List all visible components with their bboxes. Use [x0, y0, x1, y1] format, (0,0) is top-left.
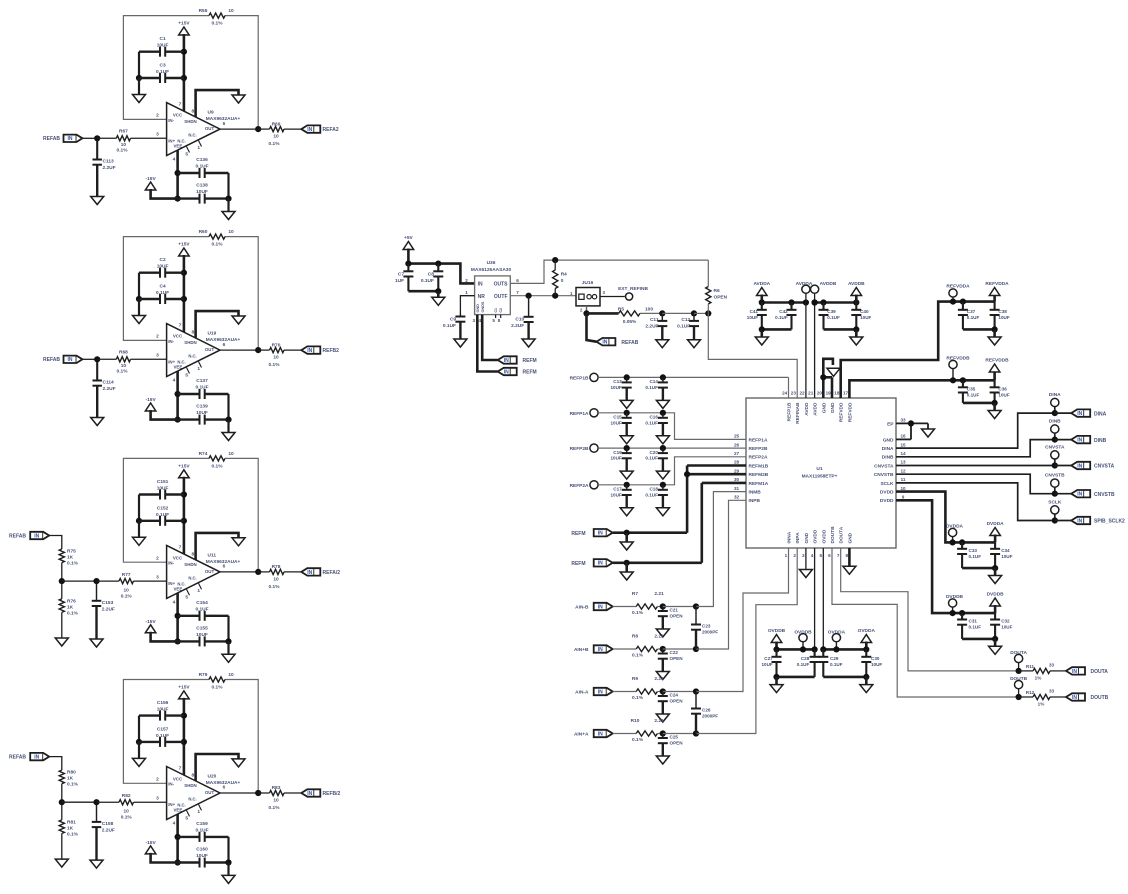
svg-text:DINB: DINB — [1094, 438, 1107, 444]
svg-text:IN+: IN+ — [168, 359, 175, 364]
node VCC-C3 — [181, 296, 187, 302]
capacitor C32 — [990, 613, 1013, 639]
svg-text:2.2UF: 2.2UF — [102, 607, 115, 613]
svg-text:R82: R82 — [122, 793, 131, 799]
terminal REFP1A — [570, 409, 599, 417]
node OVDDA — [833, 646, 839, 652]
svg-text:32: 32 — [734, 495, 740, 500]
tag REFAB — [30, 532, 49, 540]
svg-text:C152: C152 — [157, 505, 169, 511]
svg-text:1K: 1K — [67, 776, 74, 782]
wire C11 C12 — [662, 312, 694, 314]
svg-text:6: 6 — [223, 785, 226, 791]
resistor R8 — [613, 634, 664, 659]
svg-text:26: 26 — [734, 442, 740, 447]
svg-text:REFM: REFM — [571, 531, 585, 537]
power +15V — [178, 21, 190, 36]
svg-text:-15V: -15V — [146, 176, 157, 182]
node rail C41 — [759, 299, 765, 305]
svg-text:0.1%: 0.1% — [212, 684, 224, 690]
svg-text:10: 10 — [900, 486, 906, 491]
svg-text:GND: GND — [476, 304, 480, 313]
capacitor C40 — [851, 303, 871, 330]
svg-text:VCC: VCC — [173, 776, 183, 781]
wire DOUTB stub — [1018, 689, 1020, 697]
wire input top — [49, 757, 62, 771]
svg-text:27: 27 — [734, 451, 740, 456]
svg-text:REFP1A: REFP1A — [570, 411, 589, 417]
node output — [255, 126, 261, 132]
capacitor C139 — [178, 404, 229, 425]
wire NR pin 1 — [460, 296, 474, 314]
power AVDDB — [848, 281, 865, 303]
wire U36 pin5 stub — [495, 315, 497, 318]
resistor R7 — [613, 591, 664, 616]
wire REFVDD B bottoms — [963, 402, 995, 405]
svg-text:30: 30 — [734, 477, 740, 482]
ground below C155 — [222, 641, 235, 662]
wire input — [83, 358, 98, 360]
svg-text:REFM1B: REFM1B — [749, 463, 769, 469]
wire AIN-A to node — [663, 691, 696, 693]
svg-text:C154: C154 — [196, 600, 208, 606]
resistor R82 — [97, 793, 167, 821]
node C22 — [660, 646, 666, 652]
svg-text:U36: U36 — [487, 260, 496, 266]
svg-text:13: 13 — [900, 460, 906, 465]
svg-text:CNVSTB: CNVSTB — [1045, 473, 1065, 479]
wire SHDN pin 8 — [196, 311, 239, 338]
node AIN+A filter — [693, 730, 699, 736]
svg-text:1K: 1K — [67, 555, 74, 561]
svg-text:0.1UF: 0.1UF — [195, 606, 208, 612]
node SCLK — [1052, 517, 1058, 523]
svg-text:10: 10 — [228, 451, 234, 457]
ground DVDDA — [989, 568, 1002, 583]
svg-text:OPEN: OPEN — [714, 295, 728, 301]
node cap right — [225, 196, 231, 202]
svg-text:4: 4 — [811, 553, 814, 558]
svg-text:REFP1B: REFP1B — [570, 375, 589, 381]
wire REFVDD rail A — [953, 300, 995, 303]
wire OVDDB stub — [802, 642, 804, 650]
tag output REFA/2 — [301, 568, 340, 576]
svg-text:33: 33 — [900, 418, 906, 423]
svg-text:10UF: 10UF — [196, 189, 208, 195]
wire output — [220, 128, 258, 130]
svg-text:1UF: 1UF — [395, 278, 404, 284]
node C input — [93, 799, 99, 805]
svg-text:OVDDB: OVDDB — [768, 628, 786, 634]
svg-text:0.1UF: 0.1UF — [195, 827, 208, 833]
svg-text:IN: IN — [598, 531, 603, 537]
svg-text:R7: R7 — [632, 591, 638, 597]
svg-text:REFAB: REFAB — [9, 534, 26, 540]
wire -15V — [151, 410, 178, 420]
ground below C158 — [90, 860, 103, 868]
svg-text:DOUTA: DOUTA — [1091, 669, 1109, 675]
svg-text:MAX11958ETP+: MAX11958ETP+ — [802, 474, 838, 480]
capacitor C27 — [761, 649, 781, 677]
wire REFP1B row — [598, 377, 788, 398]
node OVDDB rail left — [773, 646, 779, 652]
svg-text:C160: C160 — [196, 846, 208, 852]
svg-text:REFVDDA: REFVDDA — [946, 284, 970, 290]
svg-text:10UF: 10UF — [761, 662, 772, 667]
svg-text:VCC: VCC — [173, 113, 183, 118]
node C35 — [960, 377, 966, 383]
node JU16 REFAB — [583, 310, 589, 316]
svg-text:10: 10 — [228, 672, 234, 678]
node input — [94, 135, 100, 141]
svg-text:C36: C36 — [998, 387, 1007, 392]
svg-text:0.1UF: 0.1UF — [195, 164, 208, 170]
svg-text:10: 10 — [228, 8, 234, 14]
svg-text:REFB2: REFB2 — [323, 348, 340, 354]
svg-text:GND: GND — [847, 532, 853, 543]
svg-text:C18: C18 — [649, 487, 658, 492]
tag REFM upper — [498, 356, 537, 364]
resistor R70 — [258, 342, 301, 368]
wire SCLK tag — [1055, 520, 1071, 522]
label AIN+A — [574, 732, 589, 738]
svg-text:+15V: +15V — [178, 21, 190, 27]
svg-text:DINB: DINB — [882, 455, 894, 461]
wire REFP2A row — [598, 457, 746, 485]
wire REFVDD A route — [841, 302, 953, 398]
svg-text:C9: C9 — [450, 317, 456, 323]
wire cap right link — [227, 616, 229, 642]
svg-text:OUTF: OUTF — [494, 294, 508, 300]
resistor R6 — [706, 260, 728, 313]
svg-text:8: 8 — [191, 330, 194, 336]
svg-text:3: 3 — [473, 318, 476, 323]
tag DINA — [1071, 409, 1106, 417]
ground below C17 — [620, 508, 633, 516]
svg-text:VEE: VEE — [174, 586, 183, 591]
terminal REFP2A — [570, 481, 599, 489]
svg-text:10: 10 — [273, 797, 279, 803]
svg-text:1%: 1% — [1038, 702, 1045, 707]
svg-text:2.2UF: 2.2UF — [102, 828, 115, 834]
terminal DOUTA — [1010, 650, 1027, 663]
wire GND pin3 — [805, 548, 807, 570]
node C24 — [660, 688, 666, 694]
node C19 — [624, 445, 630, 451]
svg-text:U11: U11 — [208, 552, 217, 558]
svg-text:REFVDD: REFVDD — [847, 402, 853, 422]
node AVDD B gnd — [853, 326, 859, 332]
node DOUTB — [1016, 694, 1022, 700]
svg-text:2.2UF: 2.2UF — [103, 165, 116, 171]
svg-text:IN-: IN- — [168, 118, 174, 123]
svg-text:C113: C113 — [103, 159, 115, 165]
svg-text:IN: IN — [602, 340, 607, 346]
terminal EXT_REFINB — [618, 286, 648, 300]
svg-text:JU16: JU16 — [582, 280, 594, 286]
wire GND pins loop — [823, 359, 833, 398]
svg-text:10: 10 — [273, 355, 279, 361]
ground REFVDD B — [988, 403, 1001, 419]
svg-text:NR: NR — [478, 294, 486, 300]
svg-text:R10: R10 — [631, 718, 640, 724]
tag REFAB — [30, 753, 49, 761]
capacitor C113 — [92, 141, 115, 197]
svg-text:R70: R70 — [272, 342, 281, 348]
svg-text:AVDDB: AVDDB — [848, 281, 865, 287]
svg-text:R5: R5 — [618, 307, 624, 313]
node REFM B — [624, 560, 630, 566]
svg-text:CNVSTB: CNVSTB — [874, 472, 894, 478]
ground below C157 — [133, 742, 146, 767]
svg-text:7: 7 — [179, 544, 182, 550]
svg-text:0.1UF: 0.1UF — [156, 290, 169, 296]
svg-text:0.1UF: 0.1UF — [827, 315, 840, 320]
svg-text:IN: IN — [504, 358, 509, 364]
node OVDD pin4 — [812, 646, 818, 652]
node OVDDB — [800, 646, 806, 652]
svg-text:DVDDB: DVDDB — [987, 592, 1005, 598]
resistor R10 — [613, 718, 664, 743]
power REFVDDA — [985, 281, 1009, 302]
wire DINA tag — [1055, 412, 1071, 414]
resistor R83 — [258, 785, 301, 811]
resistor R78 — [258, 564, 301, 590]
svg-text:6: 6 — [223, 564, 226, 570]
node REFVDD A gnd — [992, 326, 998, 332]
svg-text:OPEN: OPEN — [670, 614, 684, 619]
svg-text:0.1%: 0.1% — [67, 782, 79, 788]
wire VEE pin 4 — [176, 593, 179, 641]
svg-text:0.1UF: 0.1UF — [967, 393, 980, 398]
label REFAB — [9, 755, 26, 761]
svg-text:IN-: IN- — [168, 339, 174, 344]
capacitor C39 — [819, 303, 841, 330]
ADC U1 — [746, 398, 896, 548]
node DINA — [1052, 410, 1058, 416]
svg-text:R79: R79 — [199, 672, 208, 678]
capacitor C17 — [610, 485, 631, 508]
wire AVDD A bottoms — [762, 328, 792, 331]
label REFM A — [571, 531, 585, 537]
svg-text:OPEN: OPEN — [670, 699, 684, 704]
svg-text:R77: R77 — [122, 572, 131, 578]
wire AIN+B to U1 — [696, 500, 746, 649]
svg-text:5: 5 — [185, 152, 188, 158]
resistor R75 — [59, 549, 78, 567]
svg-text:R75: R75 — [67, 549, 76, 555]
svg-text:1: 1 — [197, 809, 200, 815]
capacitor C16 — [645, 413, 668, 436]
svg-text:1%: 1% — [1035, 676, 1042, 681]
resistor R55 — [199, 8, 234, 27]
svg-text:VEE: VEE — [174, 365, 183, 370]
wire REFINAB — [708, 313, 797, 398]
capacitor C154 — [178, 600, 229, 621]
terminal REFVDDA — [946, 284, 970, 298]
ground REFM B — [620, 563, 633, 580]
wire cap bottoms — [408, 290, 438, 293]
wire REFP1A row — [598, 413, 746, 440]
U1 left pin labels — [734, 434, 769, 505]
svg-text:1: 1 — [197, 366, 200, 372]
capacitor C7 — [395, 264, 413, 292]
svg-text:C38: C38 — [998, 309, 1007, 314]
svg-text:10UF: 10UF — [157, 43, 169, 49]
node VCC-C3 — [181, 518, 187, 524]
svg-text:C158: C158 — [102, 821, 114, 827]
svg-text:R11: R11 — [1026, 664, 1035, 669]
svg-text:0.1%: 0.1% — [212, 21, 224, 27]
svg-text:C16: C16 — [649, 415, 658, 420]
svg-text:5: 5 — [185, 594, 188, 600]
ground SHDN — [232, 759, 245, 767]
wire JU16 pin3 — [600, 296, 625, 298]
svg-text:5: 5 — [185, 815, 188, 821]
svg-text:10: 10 — [273, 576, 279, 582]
capacitor C2 — [139, 257, 184, 278]
wire DINB — [896, 440, 1055, 457]
svg-text:GNDS: GNDS — [481, 301, 485, 312]
svg-text:INPA: INPA — [795, 532, 801, 544]
capacitor C34 — [990, 542, 1013, 568]
svg-text:1: 1 — [197, 588, 200, 594]
svg-text:0.1UF: 0.1UF — [830, 662, 843, 667]
svg-text:R80: R80 — [67, 770, 76, 776]
svg-text:7: 7 — [179, 323, 182, 329]
ground DVDDB — [989, 639, 1002, 654]
svg-text:CNVSTA: CNVSTA — [1094, 464, 1115, 470]
wire REFVDDA stub — [952, 298, 954, 302]
svg-text:0.1%: 0.1% — [121, 815, 133, 821]
svg-text:OPEN: OPEN — [670, 656, 684, 661]
capacitor C8 — [421, 264, 443, 292]
svg-text:6: 6 — [828, 553, 831, 558]
svg-text:2: 2 — [156, 113, 159, 119]
power -15V — [145, 176, 156, 190]
svg-text:C155: C155 — [196, 625, 208, 631]
wire to Rin — [62, 801, 97, 803]
node output — [255, 790, 261, 796]
svg-text:C14: C14 — [649, 379, 658, 384]
svg-text:REFM: REFM — [571, 561, 585, 567]
svg-text:C8: C8 — [428, 272, 434, 278]
ground below C13 — [620, 400, 633, 408]
power DVDDA — [987, 521, 1005, 542]
svg-text:REFP2A: REFP2A — [570, 483, 589, 489]
terminal CNVSTA — [1045, 444, 1065, 459]
node VCC-C3 — [181, 75, 187, 81]
svg-text:2000PF: 2000PF — [702, 630, 718, 635]
svg-text:0.1UF: 0.1UF — [969, 554, 982, 559]
svg-text:1: 1 — [197, 145, 200, 151]
wire input top — [49, 536, 62, 550]
power DVDDB — [987, 592, 1005, 614]
svg-text:VCC: VCC — [173, 555, 183, 560]
svg-text:1: 1 — [465, 290, 468, 295]
svg-text:REFB/2: REFB/2 — [323, 791, 341, 797]
svg-text:REFVDDA: REFVDDA — [985, 281, 1009, 287]
node DINB — [1052, 437, 1058, 443]
svg-text:CNVSTB: CNVSTB — [1094, 492, 1115, 498]
svg-text:0.1%: 0.1% — [269, 805, 281, 811]
svg-text:10: 10 — [124, 588, 130, 594]
svg-text:DOUTB: DOUTB — [1091, 695, 1109, 701]
svg-text:2.2UF: 2.2UF — [645, 324, 658, 330]
node VEE-C upper — [175, 613, 181, 619]
ground below C16 — [656, 436, 669, 444]
svg-text:1: 1 — [785, 553, 788, 558]
power +5V — [403, 235, 414, 250]
svg-text:IN+: IN+ — [168, 581, 175, 586]
tag AIN-B — [594, 603, 613, 611]
wire -15V — [151, 632, 178, 642]
svg-text:1K: 1K — [67, 826, 74, 832]
svg-text:10UF: 10UF — [610, 385, 621, 390]
svg-text:IN: IN — [68, 136, 73, 142]
wire REFVDD B route — [849, 380, 953, 398]
wire U36 GNDS pin4 — [482, 315, 498, 360]
svg-text:IN: IN — [1072, 669, 1077, 675]
svg-text:2.21: 2.21 — [654, 634, 664, 640]
node rail C39 — [820, 299, 826, 305]
wire VCC rail — [183, 34, 186, 111]
ground REFM A — [620, 533, 633, 550]
ground below C14 — [656, 400, 669, 408]
ground OVDDB — [770, 677, 783, 693]
resistor R81 — [59, 820, 78, 838]
svg-text:INPB: INPB — [749, 498, 761, 504]
svg-text:10UF: 10UF — [610, 492, 621, 497]
svg-text:REFP2A: REFP2A — [749, 455, 768, 461]
power OVDDA — [858, 628, 876, 649]
capacitor C137 — [178, 378, 229, 399]
svg-text:AVDDA: AVDDA — [753, 281, 770, 287]
svg-text:3: 3 — [156, 574, 159, 580]
wire divider bottom — [61, 612, 63, 638]
terminal OVDDB — [794, 629, 812, 642]
node VEE-C lower — [175, 638, 181, 644]
op-amp U19 — [156, 323, 240, 384]
wire VCC rail — [183, 255, 186, 332]
node AIN-A filter — [693, 688, 699, 694]
capacitor C11 — [645, 313, 667, 339]
tag input REFAB — [43, 357, 60, 363]
svg-text:DVDD: DVDD — [880, 490, 894, 496]
node +5V C7 — [405, 261, 411, 267]
ground AVDD A — [755, 329, 768, 345]
svg-text:C1: C1 — [494, 308, 498, 312]
op-amp U11 — [156, 544, 240, 605]
svg-text:R60: R60 — [199, 229, 208, 235]
tag REFM lower — [498, 368, 537, 376]
ground below C160 — [222, 863, 235, 884]
wire GND pin8 — [848, 548, 851, 566]
tag REFM B — [594, 559, 613, 567]
wire SCLK stub — [1054, 514, 1056, 521]
ground SHDN — [232, 316, 245, 324]
ground below C18 — [656, 508, 669, 516]
wire DINA stub — [1054, 407, 1056, 414]
svg-text:10: 10 — [228, 229, 234, 235]
node C14 — [660, 374, 666, 380]
svg-text:2.21: 2.21 — [654, 591, 664, 597]
svg-text:IN: IN — [1077, 492, 1082, 498]
svg-text:IN: IN — [1072, 695, 1077, 701]
svg-text:0.1%: 0.1% — [269, 584, 281, 590]
svg-text:33: 33 — [1049, 689, 1055, 694]
wire AIN-A to U1 — [696, 548, 789, 692]
